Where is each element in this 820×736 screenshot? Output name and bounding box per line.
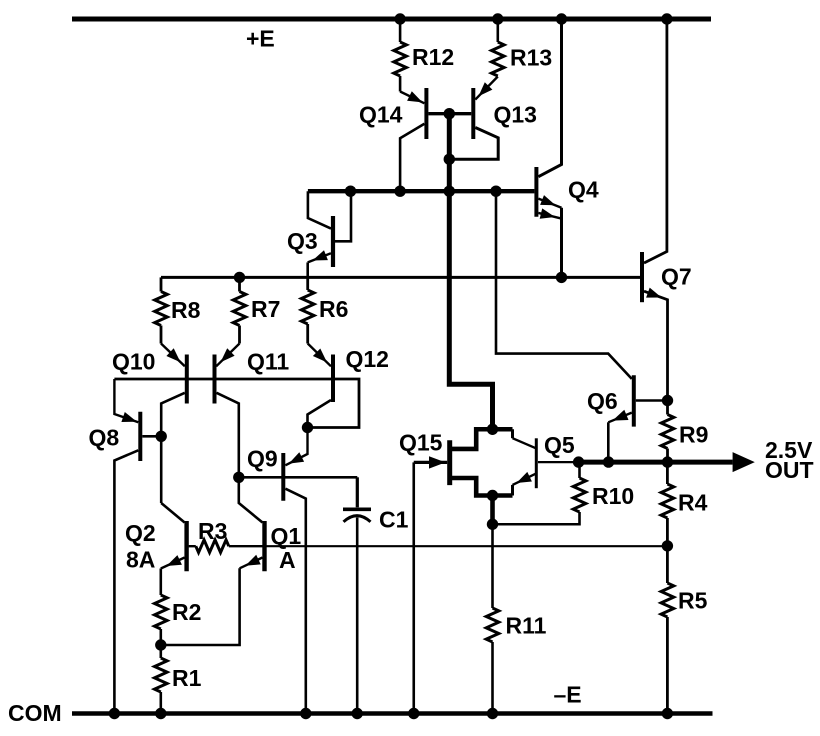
svg-text:Q2: Q2 [125,520,156,546]
resistor R4 [661,462,674,546]
transistor Q12 [308,344,334,428]
label R2 [172,599,201,625]
wire bus at y277 (R8 top to Q7 base) [161,276,640,279]
svg-text:COM: COM [8,700,62,726]
resistor R6 [301,277,314,343]
label R1 [172,665,202,691]
svg-text:R8: R8 [171,297,201,323]
label A [279,547,296,573]
label Q15 [399,430,443,456]
transistor Q15 [414,429,493,495]
node R4/R5/node A line [662,540,673,551]
node OUT/Q6 emitter [603,456,614,467]
node COM/Q9 collector [300,708,311,719]
resistor R9 [661,415,674,463]
svg-text:Q9: Q9 [247,446,278,472]
svg-text:Q8: Q8 [89,425,120,451]
label R5 [678,588,708,614]
label 8A [126,547,155,573]
label Q2 [125,520,156,546]
node y191/center bus [444,186,455,197]
label Q13 [494,102,537,128]
node Q7 emitter/Q6 base/R9 [662,395,673,406]
node Q12 collector/Q9 emitter [302,422,313,433]
node y277/Q4 emitters [556,272,567,283]
svg-text:R5: R5 [678,588,708,614]
svg-text:Q1: Q1 [271,523,302,549]
label Q14 [359,102,403,128]
node COM/C1 [352,708,363,719]
node +E/Q7 collector [661,13,672,24]
node COM/R11 [487,708,498,719]
label R9 [679,422,708,448]
label R12 [412,44,454,70]
label R11 [506,613,547,639]
label R8 [171,297,201,323]
svg-text:A: A [279,547,296,573]
node Q8 base/Q10 collector line [156,431,167,442]
node Q15 collector/Q5 base [487,424,498,435]
node y277/R7 [234,272,245,283]
svg-text:R12: R12 [412,44,454,70]
svg-text:R10: R10 [592,483,634,509]
resistor R8 [155,277,168,343]
label Q5 [544,432,575,458]
node Q14/Q13 bases [444,108,455,119]
svg-text:R6: R6 [319,296,348,322]
label COM [8,700,62,726]
resistor R3 [189,540,263,553]
node y191/Q3 base [345,186,356,197]
label R4 [678,490,708,516]
label R10 [592,483,634,509]
transistor Q8 [114,379,161,714]
node Q15 base/Q5 emitter [487,490,498,501]
label Q3 [287,228,318,254]
svg-text:Q15: Q15 [399,430,443,456]
wire 2.5V OUT line [579,460,733,465]
transistor Q10 [161,344,187,504]
label R7 [251,296,280,322]
wire node A (Q1/Q2 base line to R4/R5 junction) [263,545,668,547]
svg-text:–E: –E [554,682,582,708]
capacitor C1 [343,477,371,713]
node +E/R12 [394,13,405,24]
label Q9 [247,446,278,472]
wire center bus from Q14/Q13 base node down to Q15/Q5 pair [449,114,492,430]
svg-text:Q12: Q12 [346,346,389,372]
node COM/R1 [155,708,166,719]
transistor Q2 [161,503,187,595]
svg-text:C1: C1 [379,507,409,533]
svg-text:+E: +E [246,26,275,52]
resistor R2 [155,595,168,658]
arrow OUT [733,452,755,472]
resistor R5 [661,546,674,714]
node +E/R13 [492,13,503,24]
svg-text:Q11: Q11 [247,349,289,375]
transistor Q11 [215,344,240,478]
transistor Q13 [449,77,498,160]
svg-text:R13: R13 [510,45,552,71]
node R10 bottom link [487,519,498,530]
transistor Q4 [536,22,561,278]
label 2.5V [765,437,813,463]
node COM/Q8 collector [109,708,120,719]
transistor Q6 [496,191,668,462]
svg-text:Q4: Q4 [568,177,599,203]
svg-text:R9: R9 [679,422,708,448]
label R3 [198,518,227,544]
label Q8 [89,425,120,451]
resistor R11 [486,608,499,714]
wire COM rail [72,711,713,716]
svg-text:Q10: Q10 [112,349,155,375]
label Q11 [247,349,289,375]
label OUT [765,457,814,483]
svg-text:Q7: Q7 [661,264,692,290]
label Q12 [346,346,389,372]
wire Q15/Q5 lower node to R10/R11 [490,496,495,609]
wire +E supply rail [72,17,711,22]
resistor R12 [394,22,407,92]
svg-text:Q13: Q13 [494,102,537,128]
svg-text:R4: R4 [678,490,708,516]
node +E/Q4 collector [556,13,567,24]
transistor Q1 [161,477,265,645]
resistor R10 [493,462,586,524]
svg-text:Q14: Q14 [359,102,403,128]
transistor Q3 [308,191,351,277]
node OUT/Q5 collector/R10 [573,456,584,467]
resistor R13 [492,22,505,77]
transistor Q9 [239,428,357,714]
label Q6 [587,388,618,414]
svg-text:Q6: Q6 [587,388,618,414]
node y191/Q6 collector [490,186,501,197]
label Q10 [112,349,155,375]
wire Q15 emitter to COM [412,462,415,713]
svg-text:R7: R7 [251,296,280,322]
transistor Q14 [400,88,449,191]
svg-text:OUT: OUT [765,457,814,483]
node y191/Q14 collector [394,186,405,197]
svg-text:R1: R1 [172,665,202,691]
label Q1 [271,523,302,549]
resistor R7 [233,277,246,343]
label Q7 [661,264,692,290]
svg-text:8A: 8A [126,547,155,573]
label C1 [379,507,409,533]
svg-text:Q5: Q5 [544,432,575,458]
resistor R1 [155,658,168,714]
label +E [246,26,275,52]
svg-text:R3: R3 [198,518,227,544]
wire common base line Q10/Q11/Q12 with elbow to Q12 collector [114,379,359,428]
wire bus at y191 (Q3 collector to Q4 base) [308,189,535,193]
svg-text:Q3: Q3 [287,228,318,254]
label -E [554,682,582,708]
node R2/R1/Q1 emitter link [155,639,166,650]
svg-text:R2: R2 [172,599,201,625]
node COM/Q15 emitter [408,708,419,719]
node Q13 collector to bus [444,154,455,165]
transistor Q5 [493,429,579,495]
node COM/R5 [662,708,673,719]
node Q9 base/Q11 collector/Q1 collector [233,472,244,483]
label R6 [319,296,348,322]
svg-text:R11: R11 [506,613,547,639]
label R13 [510,45,552,71]
transistor Q7 [642,22,668,415]
node R9/OUT [662,456,673,467]
label Q4 [568,177,599,203]
